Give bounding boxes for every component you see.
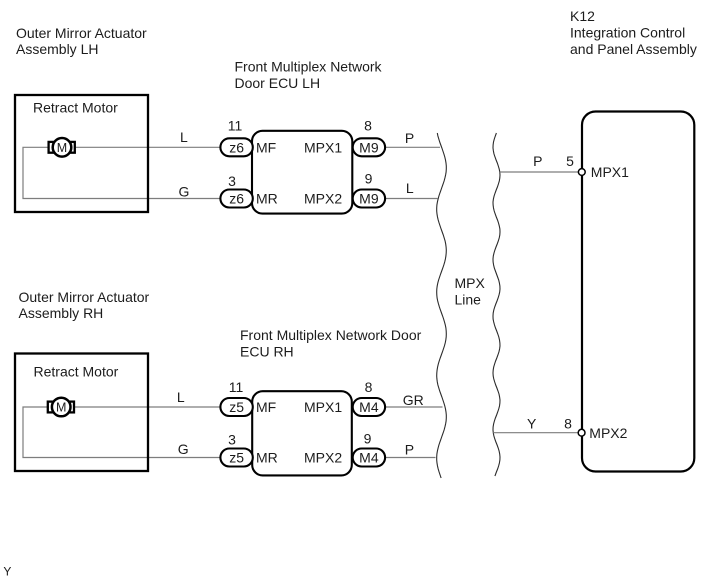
svg-text:ECU RH: ECU RH: [240, 344, 294, 360]
connector M4 pin 8: [353, 379, 385, 416]
svg-text:z6: z6: [229, 139, 244, 155]
motor M (LH): [49, 138, 75, 157]
svg-text:GR: GR: [403, 392, 424, 408]
svg-text:3: 3: [228, 432, 236, 448]
svg-text:MPX2: MPX2: [589, 425, 627, 441]
svg-text:G: G: [178, 441, 189, 457]
connector M9 pin 8: [353, 118, 385, 157]
label: MPX Line: [455, 275, 486, 308]
label: Outer Mirror Actuator Assembly RH: [19, 289, 150, 321]
svg-text:K12: K12: [570, 8, 595, 24]
svg-text:8: 8: [365, 379, 373, 395]
box: K12 Integration Control and Panel Assembly: [582, 112, 694, 472]
svg-text:G: G: [179, 184, 190, 200]
connector M9 pin 9: [353, 171, 385, 208]
label: Outer Mirror Actuator Assembly LH: [16, 25, 147, 57]
svg-text:Front Multiplex Network Door: Front Multiplex Network Door: [240, 327, 422, 343]
svg-text:8: 8: [364, 118, 372, 134]
box: Retract Motor RH: [15, 354, 148, 472]
svg-text:MR: MR: [256, 450, 278, 466]
svg-text:MPX1: MPX1: [304, 139, 342, 155]
wire: motor RH left, down and to z5 pin 3: [23, 407, 221, 458]
svg-text:9: 9: [364, 431, 372, 447]
wavy line: MPX bus right: [493, 133, 500, 476]
svg-text:Line: Line: [455, 292, 482, 308]
svg-text:MR: MR: [256, 191, 278, 207]
wire: MPX1 RH (M4 pin 8) to MPX bus: [385, 406, 443, 408]
svg-text:9: 9: [365, 171, 373, 187]
svg-text:M: M: [56, 401, 66, 415]
svg-text:Assembly RH: Assembly RH: [19, 305, 104, 321]
connector z5 pin 3: [220, 432, 252, 467]
svg-text:M9: M9: [359, 139, 379, 155]
box: Front Multiplex Network Door ECU LH: [252, 131, 352, 214]
svg-text:P: P: [533, 153, 542, 169]
wire: MPX bus to K12 MPX2 pin 8: [493, 432, 581, 434]
svg-text:P: P: [405, 130, 414, 146]
motor M (RH): [48, 398, 74, 417]
svg-text:5: 5: [566, 153, 574, 169]
svg-text:Outer Mirror Actuator: Outer Mirror Actuator: [16, 25, 147, 41]
connector z5 pin 11: [220, 379, 252, 416]
connector z6 pin 11: [220, 118, 252, 157]
svg-text:MPX1: MPX1: [591, 164, 629, 180]
wire: MPX1 LH (M9 pin 8) to MPX bus: [384, 146, 440, 148]
svg-text:11: 11: [229, 379, 244, 395]
svg-text:Front Multiplex Network: Front Multiplex Network: [235, 59, 383, 75]
svg-text:11: 11: [228, 118, 243, 134]
wavy line: MPX bus left: [437, 133, 447, 478]
svg-text:L: L: [177, 389, 185, 405]
svg-text:P: P: [405, 442, 414, 458]
wire: MPX2 RH (M4 pin 9) to MPX bus: [385, 457, 436, 459]
svg-text:z5: z5: [229, 450, 244, 466]
svg-text:Door ECU LH: Door ECU LH: [235, 75, 321, 91]
label: Front Multiplex Network Door ECU LH: [235, 59, 383, 91]
svg-text:MPX1: MPX1: [304, 399, 342, 415]
connector M4 pin 9: [353, 431, 385, 467]
wire: motor RH right to z5 pin 11: [74, 406, 221, 408]
svg-text:and Panel Assembly: and Panel Assembly: [570, 41, 697, 57]
svg-text:L: L: [406, 180, 414, 196]
svg-text:M4: M4: [359, 399, 379, 415]
svg-text:M: M: [57, 141, 67, 155]
wire: MPX bus to K12 MPX1 pin 5: [500, 171, 582, 173]
svg-text:MPX2: MPX2: [304, 191, 342, 207]
svg-text:Assembly LH: Assembly LH: [16, 41, 98, 57]
svg-text:L: L: [180, 129, 188, 145]
svg-text:Retract Motor: Retract Motor: [34, 364, 119, 380]
label: K12 Integration Control and Panel Assembly: [570, 8, 697, 57]
box: Retract Motor LH: [15, 95, 148, 212]
pin circle MPX2: [578, 429, 585, 436]
svg-text:MF: MF: [256, 139, 276, 155]
svg-text:Integration Control: Integration Control: [570, 25, 685, 41]
svg-text:MPX2: MPX2: [304, 450, 342, 466]
wire: MPX2 LH (M9 pin 9) to MPX bus: [384, 198, 438, 200]
svg-text:Y: Y: [527, 416, 537, 432]
wire: motor LH right to z6 pin 11: [74, 146, 221, 148]
svg-text:MF: MF: [256, 399, 276, 415]
connector z6 pin 3: [220, 173, 252, 208]
svg-text:M9: M9: [359, 191, 379, 207]
svg-text:3: 3: [228, 173, 236, 189]
svg-text:z6: z6: [229, 191, 244, 207]
svg-text:M4: M4: [359, 450, 379, 466]
svg-text:MPX: MPX: [455, 275, 486, 291]
svg-text:Y: Y: [3, 565, 11, 579]
svg-text:Outer Mirror Actuator: Outer Mirror Actuator: [19, 289, 150, 305]
svg-text:Retract Motor: Retract Motor: [33, 100, 118, 116]
label: Front Multiplex Network Door ECU RH: [240, 327, 422, 360]
wire: motor LH left, down and to z6 pin 3: [23, 147, 221, 198]
svg-text:z5: z5: [229, 399, 244, 415]
pin circle MPX1: [578, 169, 585, 176]
box: Front Multiplex Network Door ECU RH: [252, 391, 352, 475]
svg-text:8: 8: [564, 416, 572, 432]
